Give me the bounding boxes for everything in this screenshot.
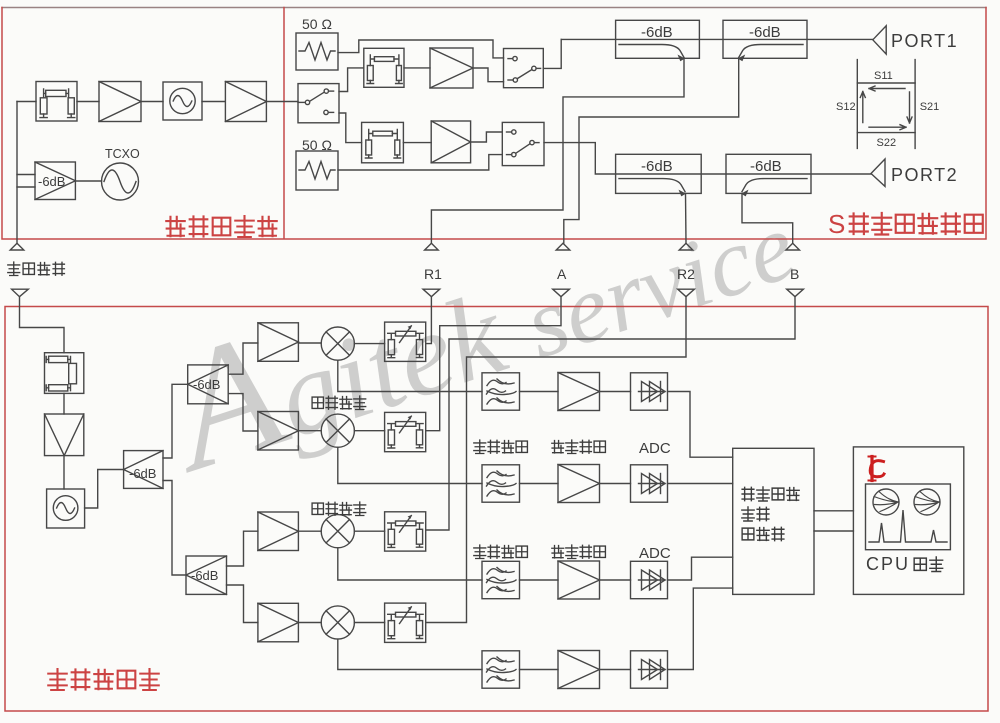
IF filter F3 xyxy=(482,561,520,598)
amplifier down U4 xyxy=(45,414,84,456)
ADC4 xyxy=(631,651,668,688)
power divider -6dB A1 xyxy=(35,162,75,200)
amplifier A1 xyxy=(430,48,473,88)
labels top-left xyxy=(38,147,140,189)
wire xyxy=(403,142,431,144)
wire ADC1 out xyxy=(668,392,733,458)
oscillator TCXO xyxy=(102,163,139,200)
amplifier SC1 xyxy=(558,373,600,411)
wire R1 feed xyxy=(426,297,432,344)
ground R1 xyxy=(425,243,439,250)
coupler DC1 -6dB xyxy=(616,20,700,61)
mixer M1 xyxy=(321,327,354,360)
mixer M2 xyxy=(321,414,354,447)
sync detector box xyxy=(733,448,814,594)
label display CJK xyxy=(914,557,942,572)
phase shifter PH3 xyxy=(385,512,426,551)
IF filter F4 xyxy=(482,651,520,688)
ground B xyxy=(786,243,800,250)
wire xyxy=(163,481,186,576)
svg-text:S12: S12 xyxy=(836,101,856,113)
svg-text:-6dB: -6dB xyxy=(129,466,156,481)
wire xyxy=(228,394,258,431)
wire xyxy=(227,531,258,566)
wire clock input xyxy=(20,297,65,353)
svg-text:-6dB: -6dB xyxy=(641,158,673,175)
wire xyxy=(520,483,559,485)
label IF filter 2 xyxy=(474,545,528,559)
frame: receiver box xyxy=(5,307,988,712)
wire xyxy=(339,68,364,92)
svg-text:-6dB: -6dB xyxy=(749,24,781,41)
svg-text:PORT2: PORT2 xyxy=(891,165,958,185)
wire xyxy=(77,101,99,103)
ground xyxy=(10,243,24,250)
amplifier U1 xyxy=(99,82,141,122)
phase shifter PH4 xyxy=(385,603,426,642)
wire main line to PORT1 xyxy=(561,38,873,40)
attenuator pad P1 xyxy=(364,48,404,87)
ground R2 xyxy=(679,243,693,250)
resistor 50ohm load 1 xyxy=(296,33,338,70)
wire xyxy=(354,343,384,345)
svg-text:TCXO: TCXO xyxy=(105,147,140,161)
svg-text:-6dB: -6dB xyxy=(193,377,220,392)
label S-parameter measuring unit (red) xyxy=(828,209,983,239)
mixer M3 xyxy=(321,515,354,548)
oscillator U5 xyxy=(47,489,85,528)
svg-text:S21: S21 xyxy=(920,101,940,113)
wire xyxy=(600,669,631,671)
amplifier SC3 xyxy=(558,561,600,599)
wire xyxy=(85,470,124,509)
ground A xyxy=(556,243,570,250)
wire xyxy=(354,622,384,624)
wire B feed xyxy=(426,297,795,530)
wire xyxy=(354,530,384,532)
svg-text:-6dB: -6dB xyxy=(191,568,218,583)
wire ADC2 out xyxy=(668,483,733,485)
wire xyxy=(298,342,321,344)
coupler DC2 -6dB xyxy=(723,20,807,61)
svg-text:R2: R2 xyxy=(677,266,695,282)
amplifier LO3 xyxy=(258,512,299,551)
port PORT1 xyxy=(873,26,886,54)
S-parameter flow graph xyxy=(857,60,915,149)
node R1 arrow xyxy=(423,289,440,297)
label IF filter 1 xyxy=(474,440,528,454)
wire xyxy=(163,384,188,458)
wire xyxy=(298,622,321,624)
wire mixer M4 IF out xyxy=(338,639,482,669)
power divider -6dB S1b xyxy=(188,365,229,404)
wire xyxy=(141,101,163,103)
switch S0 xyxy=(298,84,339,123)
logo red cent xyxy=(869,457,885,481)
wire ADC3 out xyxy=(668,557,733,580)
labels top-right xyxy=(302,16,958,185)
label sweep signal source (red CJK) xyxy=(166,216,276,237)
power divider -6dB S2b xyxy=(186,556,227,594)
svg-text:A: A xyxy=(557,266,567,282)
svg-text:B: B xyxy=(790,266,799,282)
wire xyxy=(471,132,503,142)
IF filter F2 xyxy=(482,465,520,502)
ADC1 xyxy=(631,373,668,410)
wire xyxy=(298,530,321,532)
wire xyxy=(17,186,35,188)
attenuator pad XT1 xyxy=(36,82,77,122)
amplifier LO2 xyxy=(258,412,299,451)
wire xyxy=(63,456,65,489)
wire xyxy=(544,143,871,174)
CPU display box xyxy=(853,447,963,595)
wire xyxy=(17,101,36,103)
svg-text:S22: S22 xyxy=(877,137,897,149)
attenuator pad P2 xyxy=(362,122,404,162)
svg-text:S: S xyxy=(828,209,845,239)
svg-text:ADC: ADC xyxy=(639,440,671,457)
wire xyxy=(228,343,258,374)
wire xyxy=(227,585,258,623)
wire xyxy=(338,40,504,58)
ADC2 xyxy=(631,465,668,502)
switch S1 xyxy=(504,49,544,88)
label sync detect amplitude phase diff xyxy=(742,487,799,541)
label clock port CJK xyxy=(8,262,65,276)
watermark Agitek service xyxy=(152,140,809,496)
svg-text:-6dB: -6dB xyxy=(750,158,782,175)
phase shifter PH2 xyxy=(385,412,426,451)
wire xyxy=(473,68,504,82)
wire xyxy=(520,391,559,393)
label signal conditioning 1 xyxy=(552,440,606,454)
svg-text:R1: R1 xyxy=(424,266,442,282)
wire xyxy=(404,67,430,69)
node A arrow xyxy=(553,289,570,297)
frame: sweep signal source box xyxy=(2,8,986,240)
wire coupled port DC2 to A xyxy=(564,58,739,243)
wire xyxy=(600,483,631,485)
wire xyxy=(520,669,559,671)
smith chart circle 1 xyxy=(873,489,899,515)
wire A feed xyxy=(426,297,561,431)
wire coupled port DC4 to B xyxy=(742,193,793,243)
trace with peaks xyxy=(869,510,947,542)
wire xyxy=(354,430,384,432)
wire xyxy=(267,101,299,103)
power divider -6dB S0b xyxy=(124,451,163,489)
amplifier LO4 xyxy=(258,603,299,642)
amplifier LO1 xyxy=(258,323,299,362)
amplifier U3 xyxy=(225,82,266,122)
wire xyxy=(16,102,18,244)
wire xyxy=(202,101,225,103)
wire coupled port DC3 to R2 xyxy=(685,193,688,243)
oscillator U2 xyxy=(163,82,202,120)
wire mixer M2 IF out xyxy=(338,447,482,483)
phase shifter PH1 xyxy=(385,322,426,361)
node clock port arrow xyxy=(12,289,29,297)
svg-text:CPU: CPU xyxy=(866,554,910,574)
wire mixer M3 IF out xyxy=(338,548,482,580)
crystal pad XT2 xyxy=(45,353,84,394)
svg-text:-6dB: -6dB xyxy=(38,174,65,189)
wire xyxy=(600,391,631,393)
amplifier A2 xyxy=(431,121,470,163)
wire xyxy=(543,39,561,68)
coupler DC3 -6dB xyxy=(616,154,702,196)
svg-text:PORT1: PORT1 xyxy=(891,31,958,51)
IF filter F1 xyxy=(482,373,520,410)
port PORT2 xyxy=(871,159,885,186)
svg-text:S11: S11 xyxy=(874,70,893,82)
mixer M4 xyxy=(321,606,354,639)
amplifier SC2 xyxy=(558,465,600,503)
wire detector to CPU bus xyxy=(814,511,853,531)
wire mixer M1 IF out xyxy=(338,360,482,391)
wire 50ohm2 to switch xyxy=(338,155,502,170)
svg-text:50 Ω: 50 Ω xyxy=(302,137,332,153)
wire R2 feed xyxy=(426,297,686,623)
wire xyxy=(339,113,362,143)
wire xyxy=(298,430,321,432)
wire ADC4 out xyxy=(668,588,733,669)
label synchronous receiver (red) xyxy=(48,669,158,690)
amplifier SC4 xyxy=(558,651,600,689)
label mixing phase label 1 xyxy=(312,396,366,410)
svg-text:50 Ω: 50 Ω xyxy=(302,16,332,32)
smith chart circle 2 xyxy=(914,489,940,515)
coupler DC4 -6dB xyxy=(726,154,811,196)
resistor 50ohm load 2 xyxy=(296,151,338,190)
switch S2 xyxy=(502,122,544,165)
wire xyxy=(600,579,631,581)
display screen xyxy=(866,484,951,550)
wire coupled port DC1 to R1 xyxy=(431,58,684,243)
svg-text:-6dB: -6dB xyxy=(641,24,673,41)
wire xyxy=(17,174,35,176)
label mixing phase label 2 xyxy=(312,502,366,516)
wire xyxy=(75,180,101,182)
wire xyxy=(520,579,559,581)
ADC3 xyxy=(631,561,668,598)
node R2 arrow xyxy=(678,289,695,297)
node B arrow xyxy=(787,289,804,297)
svg-text:ADC: ADC xyxy=(639,545,671,562)
wire xyxy=(63,393,65,414)
label signal conditioning 2 xyxy=(552,545,606,559)
